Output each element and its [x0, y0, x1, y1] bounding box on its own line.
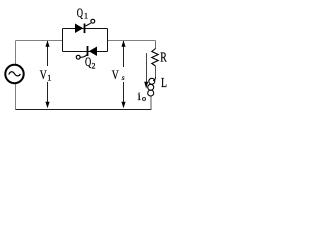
svg-text:1: 1 [84, 12, 88, 21]
wire top-left segment [16, 40, 63, 42]
svg-text:V: V [112, 67, 119, 82]
wire bottom branch [63, 51, 108, 53]
wire left upper [15, 41, 17, 65]
label io [138, 89, 147, 103]
label Q2 [85, 54, 96, 71]
arrow V2 top [123, 41, 125, 67]
node box right vertical [107, 29, 109, 52]
svg-text:Q: Q [77, 5, 84, 20]
thyristor Q1 [75, 19, 95, 33]
svg-text:o: o [142, 94, 146, 103]
wire load bottom segment [150, 96, 152, 110]
inductor L [148, 77, 156, 96]
wire between R and L [155, 66, 157, 77]
arrow io current [146, 53, 148, 82]
wire top branch [63, 28, 108, 30]
svg-text:1: 1 [47, 74, 51, 83]
arrow V1 top [47, 41, 49, 66]
label V2 [112, 67, 125, 82]
ac source V [5, 65, 23, 83]
wire right stub above resistor [155, 41, 157, 50]
wire top-right segment [108, 40, 156, 42]
wire bottom [16, 109, 152, 111]
label Q1 [77, 5, 88, 21]
svg-text:V: V [40, 67, 47, 82]
wire left lower [15, 84, 17, 110]
thyristor Q2 [76, 46, 97, 59]
svg-text:s: s [122, 73, 125, 82]
label V1 [40, 67, 51, 83]
resistor R [152, 49, 158, 67]
svg-text:2: 2 [92, 62, 96, 71]
svg-text:R: R [160, 51, 167, 66]
svg-text:L: L [161, 75, 167, 90]
arrow V2 bottom [123, 82, 125, 102]
node box left vertical [62, 29, 64, 52]
arrow V1 bottom [47, 82, 49, 102]
